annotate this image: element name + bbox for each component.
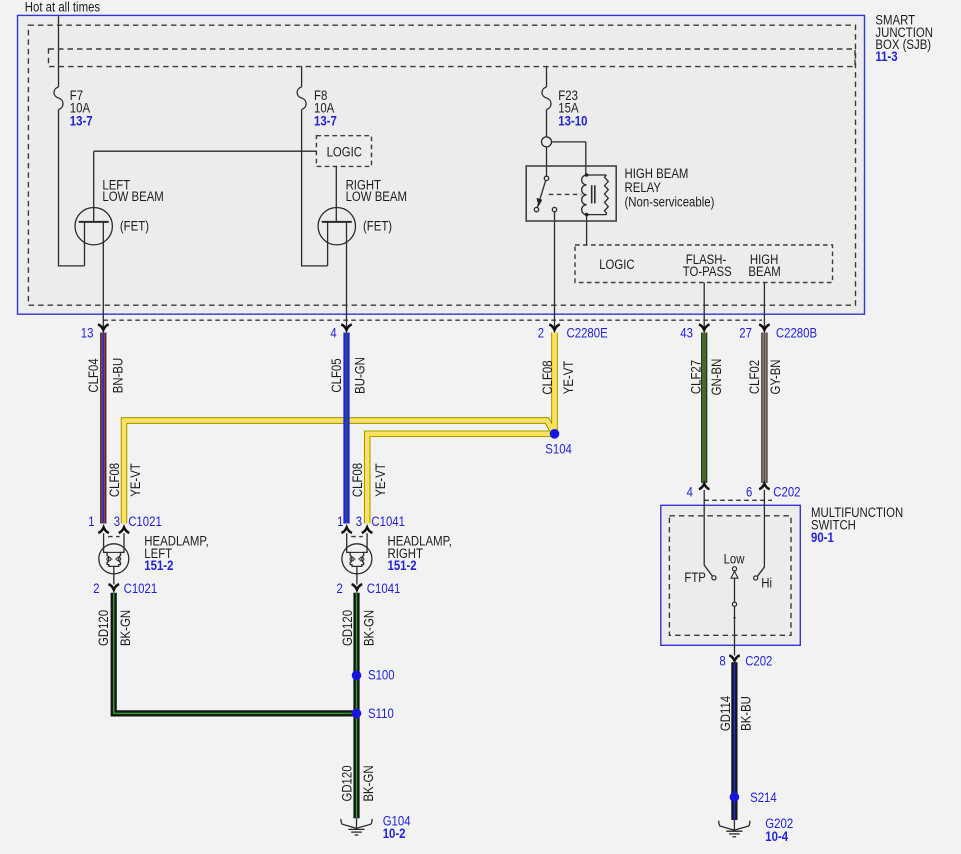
svg-text:S100: S100 — [368, 668, 395, 683]
svg-text:8: 8 — [719, 654, 725, 669]
svg-text:11-3: 11-3 — [875, 49, 898, 64]
svg-text:CLF05: CLF05 — [329, 358, 344, 392]
svg-text:BK-GN: BK-GN — [361, 765, 376, 801]
svg-text:Hot at all times: Hot at all times — [25, 0, 101, 15]
svg-text:CLF08: CLF08 — [350, 463, 365, 497]
svg-text:BK-BU: BK-BU — [738, 696, 753, 731]
svg-text:C1041: C1041 — [371, 514, 405, 529]
svg-text:2: 2 — [337, 581, 343, 596]
svg-text:1: 1 — [88, 514, 94, 529]
svg-text:C2280B: C2280B — [776, 326, 817, 341]
svg-text:BK-GN: BK-GN — [361, 610, 376, 646]
svg-text:4: 4 — [330, 326, 337, 341]
svg-text:GD114: GD114 — [718, 695, 733, 731]
svg-text:13-7: 13-7 — [70, 113, 93, 128]
svg-text:HIGH BEAM: HIGH BEAM — [625, 166, 689, 181]
svg-text:S110: S110 — [368, 706, 394, 721]
svg-text:CLF27: CLF27 — [688, 360, 703, 394]
svg-text:6: 6 — [746, 485, 752, 500]
svg-text:1: 1 — [337, 514, 343, 529]
svg-text:10-4: 10-4 — [765, 829, 788, 844]
svg-text:BU-GN: BU-GN — [352, 357, 367, 394]
svg-text:C1021: C1021 — [128, 514, 162, 529]
svg-text:YE-VT: YE-VT — [128, 463, 143, 497]
svg-text:YE-VT: YE-VT — [561, 361, 576, 395]
svg-text:(Non-serviceable): (Non-serviceable) — [625, 194, 715, 209]
svg-text:RELAY: RELAY — [625, 180, 662, 195]
svg-text:C202: C202 — [773, 485, 800, 500]
svg-text:YE-VT: YE-VT — [373, 463, 388, 497]
svg-text:3: 3 — [356, 514, 362, 529]
svg-text:3: 3 — [114, 514, 120, 529]
svg-text:S214: S214 — [750, 790, 777, 805]
svg-text:13: 13 — [81, 326, 94, 341]
svg-text:CLF02: CLF02 — [747, 360, 762, 394]
svg-text:13-10: 13-10 — [558, 113, 587, 128]
svg-text:LOGIC: LOGIC — [599, 257, 635, 272]
svg-text:TO-PASS: TO-PASS — [683, 264, 732, 279]
svg-text:GD120: GD120 — [96, 610, 111, 646]
svg-text:43: 43 — [680, 326, 693, 341]
svg-text:C1041: C1041 — [367, 581, 401, 596]
svg-text:LOW BEAM: LOW BEAM — [102, 189, 163, 204]
svg-text:GN-BN: GN-BN — [709, 359, 724, 396]
svg-text:S104: S104 — [545, 441, 572, 456]
svg-text:GY-BN: GY-BN — [768, 360, 783, 395]
svg-text:BEAM: BEAM — [748, 264, 780, 279]
svg-text:(FET): (FET) — [120, 219, 149, 234]
svg-text:27: 27 — [739, 326, 752, 341]
svg-text:CLF08: CLF08 — [107, 463, 122, 497]
svg-text:Hi: Hi — [761, 575, 772, 590]
svg-text:FTP: FTP — [684, 570, 706, 585]
svg-text:10-2: 10-2 — [383, 826, 406, 841]
svg-text:GD120: GD120 — [340, 610, 355, 646]
svg-text:BN-BU: BN-BU — [110, 358, 125, 393]
svg-text:(FET): (FET) — [363, 219, 392, 234]
svg-text:Low: Low — [724, 552, 745, 567]
svg-text:4: 4 — [687, 485, 694, 500]
svg-text:BK-GN: BK-GN — [118, 610, 133, 646]
svg-text:2: 2 — [538, 326, 544, 341]
svg-text:151-2: 151-2 — [388, 558, 417, 573]
svg-text:151-2: 151-2 — [144, 558, 173, 573]
svg-text:LOGIC: LOGIC — [327, 145, 363, 160]
svg-text:2: 2 — [93, 581, 99, 596]
svg-text:GD120: GD120 — [339, 765, 354, 801]
svg-text:C202: C202 — [745, 654, 772, 669]
svg-text:C2280E: C2280E — [567, 326, 608, 341]
svg-text:90-1: 90-1 — [811, 530, 834, 545]
svg-text:C1021: C1021 — [124, 581, 158, 596]
svg-text:CLF08: CLF08 — [540, 360, 555, 394]
svg-text:13-7: 13-7 — [314, 113, 337, 128]
svg-text:LOW BEAM: LOW BEAM — [346, 189, 407, 204]
svg-text:CLF04: CLF04 — [86, 358, 101, 393]
